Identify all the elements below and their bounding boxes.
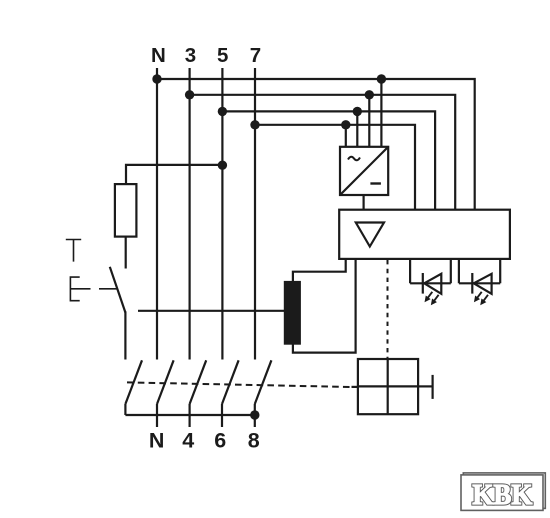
wire pole 8 bottom bbox=[254, 404, 256, 427]
LED D1 loop legs bbox=[410, 259, 451, 283]
wire test pole bottom bbox=[124, 404, 126, 415]
node test wire on line 5 bbox=[218, 161, 227, 170]
rectifier U1 box bbox=[340, 147, 388, 195]
wire test return to pole 8 bbox=[125, 414, 254, 416]
node on 5 bus bbox=[218, 107, 227, 116]
wire test pole bbox=[124, 311, 126, 359]
dashed link electronics box to mechanism bbox=[387, 260, 389, 359]
svg-text:7: 7 bbox=[250, 44, 261, 67]
main contact arm pole 8 bbox=[255, 360, 272, 404]
main contact arm pole 4 bbox=[190, 360, 207, 404]
wire pole 3 vertical bbox=[189, 68, 191, 360]
electronics trip unit box bbox=[339, 210, 510, 259]
node on 3 bus bbox=[185, 90, 194, 99]
wire rectifier output stub bbox=[363, 195, 365, 210]
resistor R test bbox=[115, 184, 136, 237]
test switch contact arm bbox=[110, 267, 126, 313]
LED D2 wire bbox=[459, 282, 500, 284]
wire pole 6 bottom bbox=[221, 404, 223, 427]
mechanism box bbox=[358, 359, 418, 414]
test button bracket bbox=[70, 277, 90, 301]
wire bus from 5 to electronics box bbox=[222, 111, 435, 209]
svg-text:3: 3 bbox=[185, 44, 196, 67]
LED D1 cathode bar bbox=[422, 273, 424, 294]
svg-text:4: 4 bbox=[182, 429, 194, 453]
node rectifier tap 2 bbox=[353, 107, 362, 116]
wire mechanism left stub bbox=[352, 386, 358, 388]
rectifier U1 AC tilde bbox=[348, 157, 360, 161]
svg-text:N: N bbox=[149, 429, 165, 453]
wire pole N bottom bbox=[156, 404, 158, 427]
wire rectifier input drop 3 bbox=[368, 95, 370, 147]
wire to CT secondary coil bbox=[138, 310, 285, 312]
wire pole 4 bottom bbox=[189, 404, 191, 427]
dashed link contacts to mechanism bbox=[127, 382, 352, 387]
wire resistor to test contact bbox=[125, 237, 127, 269]
KBK logo box bbox=[461, 475, 543, 511]
LED D2 triangle bbox=[474, 274, 492, 294]
test button actuator link bbox=[99, 288, 117, 290]
LED D2 loop legs bbox=[459, 259, 500, 283]
LED D1 wire bbox=[410, 282, 451, 284]
rectifier U1 DC minus bbox=[370, 182, 381, 184]
mechanism box cross bbox=[358, 359, 418, 414]
node rectifier tap 1 bbox=[341, 120, 350, 129]
node rectifier tap 3 bbox=[365, 90, 374, 99]
wire bus from 3 to electronics box bbox=[190, 95, 456, 210]
LED D1 arrows bbox=[425, 292, 438, 305]
wire pole 5 vertical bbox=[221, 68, 223, 360]
wire rectifier input drop 4 bbox=[380, 79, 382, 147]
mechanism handle bar bbox=[432, 375, 434, 399]
wire coil top to electronics box bbox=[293, 259, 346, 282]
node test return on pole 8 bbox=[250, 410, 259, 419]
main contact arm pole N bbox=[157, 360, 174, 404]
LED D2 cathode bar bbox=[471, 273, 473, 294]
svg-text:KBK: KBK bbox=[472, 479, 532, 511]
wire rectifier input drop 1 bbox=[345, 125, 347, 147]
wire test resistor to line 5 bbox=[126, 165, 222, 184]
label T test button bbox=[66, 240, 81, 262]
svg-text:N: N bbox=[151, 44, 166, 67]
CT secondary coil bbox=[284, 281, 301, 345]
LED D1 triangle bbox=[424, 274, 441, 294]
wire pole 7 vertical bbox=[254, 68, 256, 360]
svg-text:5: 5 bbox=[217, 44, 228, 67]
KBK logo text bbox=[472, 479, 532, 511]
rectifier U1 diagonal bbox=[340, 147, 388, 195]
KBK logo shadow box bbox=[463, 473, 545, 509]
amplifier triangle bbox=[356, 223, 384, 247]
main contact arm pole 6 bbox=[222, 360, 239, 404]
svg-text:8: 8 bbox=[248, 429, 260, 453]
wire rectifier input drop 2 bbox=[356, 111, 358, 146]
node on N bus bbox=[152, 74, 161, 83]
wire coil bottom to electronics box bbox=[293, 259, 356, 353]
wire bus from N to electronics box bbox=[157, 79, 475, 210]
node on 7 bus bbox=[250, 120, 259, 129]
svg-text:6: 6 bbox=[214, 429, 226, 453]
LED D2 arrows bbox=[475, 292, 488, 305]
wire bus from 7 to electronics box bbox=[255, 125, 415, 210]
wire pole N vertical bbox=[156, 68, 158, 360]
node rectifier tap 4 bbox=[377, 74, 386, 83]
test pole contact arm bbox=[125, 360, 142, 404]
mechanism handle stub bbox=[418, 385, 433, 387]
